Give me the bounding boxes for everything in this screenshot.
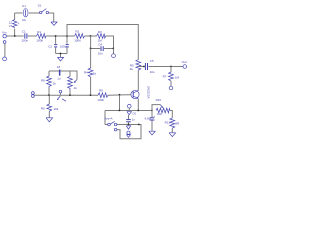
svg-text:R6: R6 [41,106,45,110]
arrow below wire1 [127,112,132,115]
resistor R1 [36,30,46,43]
load resistor R11 [165,118,180,137]
junction dots rail [48,94,50,96]
svg-text:6.8u: 6.8u [145,117,151,121]
svg-text:Out: Out [182,60,187,64]
cap pair legs [56,36,67,57]
potentiometer P1 [68,76,78,90]
capacitor C3 [60,44,69,48]
svg-text:C6: C6 [132,111,136,115]
svg-text:R1: R1 [37,30,41,34]
capacitor C5 [145,59,155,74]
svg-text:Key=A: Key=A [105,117,113,121]
svg-text:4k: 4k [130,67,134,71]
svg-text:10k: 10k [157,112,162,116]
svg-text:1u: 1u [132,118,136,122]
terminal ring above wire1 [128,104,132,110]
wire top loop [15,13,54,36]
svg-text:+: + [18,22,20,26]
emitter network wire1 [105,95,152,124]
input terminal pair [3,41,7,61]
transistor Q1 [131,86,151,99]
feedback lower wire [91,36,114,49]
svg-text:R11: R11 [165,120,171,124]
svg-text:18: 18 [57,65,61,69]
rail start connector [32,92,35,98]
output cap tap [138,66,144,68]
svg-text:C5: C5 [150,59,154,63]
collector resistor R5 [130,60,141,71]
svg-text:1u: 1u [57,76,61,80]
svg-text:R2: R2 [75,29,79,33]
svg-text:100u: 100u [60,44,67,48]
node A junction [14,35,16,37]
ground arrow cap pair [57,57,63,61]
svg-text:V1: V1 [9,24,13,28]
resistor R4 [84,68,97,77]
svg-text:1k: 1k [53,81,57,85]
switch S1 [38,3,49,13]
vcc rail [67,25,138,60]
svg-text:C2: C2 [48,44,52,48]
bottom rail [35,94,131,97]
wire2 [105,125,141,139]
capacitor C7 between [126,115,135,125]
svg-text:R7: R7 [163,75,167,79]
ground arrow below switch [51,22,57,25]
port IN [2,31,7,38]
svg-text:U1: U1 [22,4,26,8]
svg-text:100k: 100k [97,98,104,102]
cluster top wire [49,71,77,95]
resistor R2 [74,29,84,42]
svg-text:10n: 10n [98,51,103,55]
resistor R3 [97,30,106,42]
switch S2 [105,117,117,131]
svg-text:1k: 1k [74,86,78,90]
svg-text:1k: 1k [93,71,97,75]
main wire A [6,36,113,49]
svg-text:2N2222A: 2N2222A [146,86,150,99]
capacitor C1 [21,29,28,42]
tap glyph [57,65,61,80]
svg-text:R3: R3 [98,30,102,34]
resistor R6 to ground [41,95,59,122]
divider column wire [90,49,92,96]
ground glyphs below wire2 [126,126,130,138]
svg-text:R9: R9 [99,89,103,93]
emitter gnd cap C8 [145,111,156,136]
svg-text:R4: R4 [84,71,88,75]
port node B [112,49,116,58]
resistor R8 left leg [41,76,56,88]
rheostat output [152,98,172,118]
meter U1 [22,4,28,22]
svg-text:R8: R8 [41,79,45,83]
svg-text:C4: C4 [98,43,102,47]
port OUT [182,60,187,68]
svg-text:S1: S1 [38,3,42,7]
svg-text:+: + [153,114,155,118]
svg-text:100k: 100k [74,38,81,42]
svg-text:10k: 10k [53,107,58,111]
capacitor C4 [98,43,104,56]
capacitor C2 [48,44,57,48]
svg-text:1M: 1M [175,76,180,80]
battery V1 [9,20,20,29]
load resistor R7 [163,67,180,90]
svg-text:100n: 100n [21,38,28,42]
svg-text:100k: 100k [36,38,43,42]
svg-text:R10: R10 [156,98,162,102]
base resistor R9 [97,89,108,102]
svg-text:C1: C1 [22,29,26,33]
svg-text:Vin: Vin [2,31,7,35]
rail terminal with arrow [57,90,66,101]
svg-text:10u: 10u [150,70,155,74]
